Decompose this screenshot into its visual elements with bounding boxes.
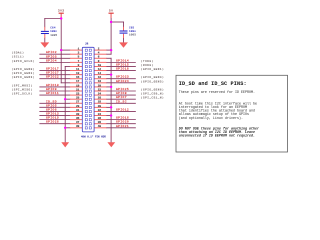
svg-text:25: 25	[76, 97, 80, 100]
svg-text:GPIO18: GPIO18	[116, 68, 129, 71]
svg-text:(GPIO_GEN3): (GPIO_GEN3)	[12, 75, 35, 79]
svg-text:(SPI_CE1_N): (SPI_CE1_N)	[141, 96, 164, 100]
svg-text:ID_SC: ID_SC	[116, 100, 127, 103]
svg-text:1005: 1005	[50, 34, 57, 37]
svg-text:24: 24	[98, 92, 102, 95]
svg-text:unconnected if ID EEPROM not r: unconnected if ID EEPROM not required.	[179, 134, 255, 139]
svg-text:(SCL1): (SCL1)	[12, 55, 25, 59]
svg-text:(SPI_CE0_N): (SPI_CE0_N)	[141, 92, 164, 96]
svg-text:(SDA1): (SDA1)	[12, 51, 25, 55]
svg-text:GPIO2: GPIO2	[46, 51, 57, 54]
svg-text:36: 36	[98, 117, 102, 120]
svg-text:100n: 100n	[50, 30, 57, 33]
svg-text:GPIO13: GPIO13	[46, 113, 59, 116]
svg-text:32: 32	[98, 109, 102, 112]
svg-text:GPIO24: GPIO24	[116, 80, 129, 83]
svg-text:J8: J8	[85, 42, 89, 45]
svg-text:35: 35	[76, 117, 80, 120]
svg-text:(GPIO_GEN2): (GPIO_GEN2)	[12, 71, 35, 75]
svg-text:20: 20	[98, 84, 102, 87]
svg-text:(TXD0): (TXD0)	[141, 59, 154, 63]
svg-text:34: 34	[98, 113, 102, 116]
svg-text:(SPI_MOSI): (SPI_MOSI)	[12, 83, 33, 87]
svg-text:GPIO12: GPIO12	[116, 108, 129, 111]
svg-text:GPIO15: GPIO15	[116, 63, 129, 66]
svg-text:5V: 5V	[109, 10, 113, 13]
svg-text:GPIO14: GPIO14	[116, 59, 129, 62]
svg-text:(GPIO_GEN5): (GPIO_GEN5)	[141, 79, 164, 83]
svg-text:31: 31	[76, 109, 80, 112]
svg-text:27: 27	[76, 101, 80, 104]
svg-text:13: 13	[76, 72, 80, 75]
svg-text:12: 12	[98, 68, 102, 71]
svg-text:GPIO4: GPIO4	[46, 59, 57, 62]
svg-text:GPIO17: GPIO17	[46, 68, 59, 71]
svg-text:15: 15	[76, 76, 80, 79]
svg-text:GPIO16: GPIO16	[116, 117, 129, 120]
svg-text:GPIO26: GPIO26	[46, 121, 59, 124]
svg-text:40: 40	[98, 125, 102, 128]
svg-text:(GPIO_GEN4): (GPIO_GEN4)	[141, 75, 164, 79]
svg-text:GPIO25: GPIO25	[116, 88, 129, 91]
svg-text:18: 18	[98, 80, 102, 83]
svg-text:ID_SD and ID_SC PINS:: ID_SD and ID_SC PINS:	[179, 81, 247, 87]
svg-text:GPIO9: GPIO9	[46, 88, 57, 91]
svg-text:(GPIO_GEN1): (GPIO_GEN1)	[141, 67, 164, 71]
svg-text:(GPIO_GCLK): (GPIO_GCLK)	[12, 59, 35, 63]
svg-text:33: 33	[76, 113, 80, 116]
svg-text:23: 23	[76, 92, 80, 95]
svg-text:GPIO6: GPIO6	[46, 108, 57, 111]
svg-text:100n: 100n	[129, 30, 136, 33]
svg-text:GPIO7: GPIO7	[116, 96, 127, 99]
svg-text:14: 14	[98, 72, 102, 75]
svg-text:30: 30	[98, 105, 102, 108]
svg-text:40W 0.1" PIN HDR: 40W 0.1" PIN HDR	[81, 135, 106, 138]
svg-text:These pins are reserved for ID: These pins are reserved for ID EEPROM.	[179, 90, 255, 95]
svg-text:GPIO21: GPIO21	[116, 125, 129, 128]
svg-text:16: 16	[98, 76, 102, 79]
svg-text:GPIO11: GPIO11	[46, 92, 59, 95]
svg-text:26: 26	[98, 97, 102, 100]
svg-text:28: 28	[98, 101, 102, 104]
svg-text:11: 11	[76, 68, 80, 71]
svg-text:GPIO19: GPIO19	[46, 117, 59, 120]
svg-text:GPIO8: GPIO8	[116, 92, 127, 95]
svg-text:(GPIO_GEN0): (GPIO_GEN0)	[12, 67, 35, 71]
svg-text:21: 21	[76, 88, 80, 91]
svg-text:GPIO3: GPIO3	[46, 55, 57, 58]
svg-text:(SPI_SCLK): (SPI_SCLK)	[12, 92, 33, 96]
svg-text:GPIO23: GPIO23	[116, 76, 129, 79]
svg-text:37: 37	[76, 121, 80, 124]
svg-text:GPIO22: GPIO22	[46, 76, 59, 79]
svg-text:17: 17	[76, 80, 80, 83]
svg-text:GPIO20: GPIO20	[116, 121, 129, 124]
svg-text:GPIO5: GPIO5	[46, 104, 57, 107]
svg-text:(and optionally, Linux drivers: (and optionally, Linux drivers).	[179, 116, 243, 121]
svg-text:10: 10	[98, 64, 102, 67]
svg-text:19: 19	[76, 84, 80, 87]
svg-text:29: 29	[76, 105, 80, 108]
svg-text:ID_SD: ID_SD	[46, 100, 57, 103]
svg-text:3V3: 3V3	[58, 10, 65, 13]
svg-text:GPIO10: GPIO10	[46, 84, 59, 87]
svg-text:39: 39	[76, 125, 80, 128]
svg-text:22: 22	[98, 88, 102, 91]
svg-text:(GPIO_GEN6): (GPIO_GEN6)	[141, 87, 164, 91]
svg-text:38: 38	[98, 121, 102, 124]
svg-text:GPIO27: GPIO27	[46, 72, 59, 75]
svg-text:(SPI_MISO): (SPI_MISO)	[12, 87, 33, 91]
svg-text:(RXD0): (RXD0)	[141, 63, 154, 67]
svg-text:1005: 1005	[129, 33, 136, 36]
